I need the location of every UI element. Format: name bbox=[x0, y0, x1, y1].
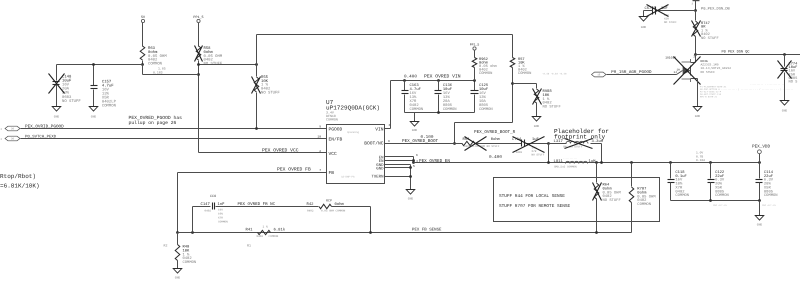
wire C147 branch up bbox=[192, 207, 194, 233]
svg-text:P0_SVTCH_PEXD: P0_SVTCH_PEXD bbox=[25, 134, 57, 139]
svg-text:10-13,SOT23_GD212: 10-13,SOT23_GD212 bbox=[701, 67, 732, 70]
capacitor C163 bbox=[404, 81, 406, 91]
node: R962 joins VIN rail bbox=[473, 79, 476, 82]
svg-text:0ohm: 0ohm bbox=[335, 202, 345, 207]
diode D63A (no stuff) bbox=[695, 55, 697, 63]
svg-text:0402: 0402 bbox=[307, 209, 314, 212]
svg-text:COMMON: COMMON bbox=[715, 193, 729, 198]
svg-text:PP1_5: PP1_5 bbox=[193, 15, 203, 20]
wire BOOT from U7 bbox=[385, 143, 463, 145]
svg-text:0.183: 0.183 bbox=[153, 71, 163, 75]
svg-text:GND: GND bbox=[408, 198, 414, 201]
node: C136 top bbox=[437, 79, 440, 82]
svg-text:PGOOD: PGOOD bbox=[329, 126, 343, 132]
svg-text:COMMON: COMMON bbox=[518, 71, 531, 76]
svg-text:0.400: 0.400 bbox=[489, 155, 502, 160]
resistor R707 bbox=[631, 163, 633, 187]
svg-text:D63A: D63A bbox=[701, 60, 708, 63]
svg-text:GND: GND bbox=[91, 116, 97, 119]
svg-text:9: 9 bbox=[319, 125, 321, 128]
ground for C774 bbox=[780, 101, 789, 106]
power flag 5V bbox=[141, 19, 144, 22]
svg-text:R2: R2 bbox=[164, 243, 168, 247]
svg-text:26: 26 bbox=[11, 128, 15, 131]
svg-text:GND: GND bbox=[412, 129, 418, 132]
node: EN wire start bbox=[412, 161, 415, 164]
svg-text:COMMON: COMMON bbox=[764, 193, 778, 198]
svg-text:R41: R41 bbox=[246, 228, 254, 233]
node: L317 branch rejoin bbox=[600, 161, 603, 164]
wire R58 line to R55 vertical bbox=[199, 64, 257, 66]
node: FB wire bottom bbox=[176, 231, 179, 234]
svg-text:Rtop/Rbot): Rtop/Rbot) bbox=[0, 173, 36, 180]
resistor R63 bbox=[140, 46, 145, 60]
svg-text:RCP: RCP bbox=[326, 198, 332, 202]
svg-text:VIN: VIN bbox=[375, 126, 384, 132]
svg-text:PEX_OVRED_BOOT_R: PEX_OVRED_BOOT_R bbox=[474, 130, 516, 135]
svg-text:REV-B NOTE-21: REV-B NOTE-21 bbox=[700, 96, 718, 99]
svg-text:1 %: 1 % bbox=[263, 225, 268, 228]
svg-text:1A: 1A bbox=[677, 69, 681, 72]
wire TXERN pin stub bbox=[385, 176, 411, 178]
node: output rail to ground corner bbox=[758, 199, 761, 202]
svg-text:COMMON: COMMON bbox=[637, 202, 651, 207]
svg-text:1.0V: 1.0V bbox=[696, 152, 703, 155]
wire vertical joining branches bbox=[548, 144, 550, 163]
svg-text:COMMON: COMMON bbox=[479, 107, 493, 112]
svg-text:GND: GND bbox=[175, 277, 181, 280]
svg-text:OpenWing: OpenWing bbox=[347, 131, 360, 134]
resistor R57 bbox=[512, 35, 514, 58]
svg-text:CS-DNP-PG: CS-DNP-PG bbox=[341, 176, 355, 179]
wire R57 bottom to BOOT node bbox=[455, 122, 513, 124]
node: BOOT wire junction at 454 bbox=[453, 142, 456, 145]
node: R58 line at y64 bbox=[197, 63, 200, 66]
svg-text:0.05 OHM COMMON: 0.05 OHM COMMON bbox=[321, 209, 346, 212]
op-amp U7 uP1729Q0DA body bbox=[327, 125, 385, 184]
svg-text:COMMON: COMMON bbox=[479, 71, 492, 76]
svg-text:0ohm: 0ohm bbox=[491, 137, 501, 142]
node: R64 bottom on sense wire bbox=[595, 231, 598, 234]
svg-text:COMMON: COMMON bbox=[102, 104, 117, 109]
wire step from R63 rail down bbox=[142, 65, 144, 75]
svg-text:GND: GND bbox=[695, 115, 701, 118]
wire rail top-left bbox=[57, 64, 143, 66]
svg-text:P0_PEX_DSN_DB: P0_PEX_DSN_DB bbox=[701, 7, 731, 12]
wire FB vertical bbox=[177, 173, 179, 233]
svg-text:PEX_OVRED_PGOOD has: PEX_OVRED_PGOOD has bbox=[129, 115, 183, 121]
wire U7 ground bus bbox=[410, 165, 412, 190]
svg-text:COMMON: COMMON bbox=[443, 107, 457, 112]
node: C157 on rail bbox=[92, 63, 95, 66]
node: boot wire to L317 branch bbox=[547, 142, 550, 145]
node: R63 to rail junction bbox=[141, 63, 144, 66]
node: C122 top bbox=[709, 161, 712, 164]
ground for C157 bbox=[89, 107, 98, 112]
svg-text:PEX OVRED FB: PEX OVRED FB bbox=[277, 167, 311, 173]
node: R988 branch bbox=[511, 82, 514, 85]
svg-text:PEX OVRED FB NC: PEX OVRED FB NC bbox=[238, 202, 276, 207]
svg-text:6.81k: 6.81k bbox=[274, 228, 286, 233]
svg-text:1nF: 1nF bbox=[218, 202, 226, 207]
svg-text:L317: L317 bbox=[554, 139, 564, 144]
svg-text:1uH: 1uH bbox=[589, 159, 597, 164]
power flag PP1V5 at R962 bbox=[473, 47, 476, 50]
resistor R40 to ground bbox=[177, 233, 179, 245]
capacitor C118 bbox=[670, 163, 672, 179]
node: R64 top bbox=[595, 161, 598, 164]
wire R58 down to VCC corner bbox=[198, 61, 200, 153]
wire SW pin 1 stub bbox=[385, 156, 414, 158]
svg-text:PP1_5: PP1_5 bbox=[470, 43, 480, 47]
svg-text:PEX FB SENSE: PEX FB SENSE bbox=[412, 228, 442, 233]
svg-text:0.400: 0.400 bbox=[404, 74, 417, 79]
node: C114 top / PEX_VDD bbox=[758, 161, 761, 164]
wire PEX_OVRID_PGOOD to U7 pin 9 bbox=[21, 128, 327, 130]
svg-text:P0_15R_AGR_PGOOD: P0_15R_AGR_PGOOD bbox=[611, 70, 652, 75]
svg-text:L811: L811 bbox=[554, 159, 564, 164]
ground for R40 bbox=[173, 269, 182, 274]
svg-text:PEX_VDD: PEX_VDD bbox=[752, 145, 770, 150]
svg-text:COMMON: COMMON bbox=[675, 193, 689, 198]
wire GND pin 1 stub bbox=[385, 164, 411, 166]
svg-text:181016: 181016 bbox=[665, 57, 676, 60]
stuff option box bbox=[494, 178, 660, 222]
svg-text:.......... . .......... ..: .......... . .......... .. bbox=[750, 83, 784, 86]
svg-text:COMMON: COMMON bbox=[218, 220, 228, 223]
svg-text:C147: C147 bbox=[201, 202, 211, 207]
svg-text:STUFF R44 FOR LOCAL SENSE: STUFF R44 FOR LOCAL SENSE bbox=[499, 194, 565, 199]
svg-text:-0.40 -0.40 -0.40: -0.40 -0.40 -0.40 bbox=[542, 72, 567, 75]
svg-text:16V: 16V bbox=[218, 208, 223, 211]
wire VIN pin stub bbox=[385, 128, 391, 130]
svg-text:DNP ALT-C5: DNP ALT-C5 bbox=[762, 204, 776, 207]
svg-text:0402: 0402 bbox=[257, 235, 264, 238]
node: C774 junction bbox=[783, 53, 786, 56]
capacitor C5741 (no stuff) bbox=[656, 10, 696, 12]
wire caps bottom rail bbox=[405, 112, 475, 114]
svg-text:NO STUFF: NO STUFF bbox=[62, 99, 81, 104]
wire output caps ground rail bbox=[671, 200, 760, 202]
capacitor C774 (no stuff) bbox=[784, 55, 786, 67]
svg-text:7: 7 bbox=[319, 169, 321, 172]
svg-text:P0 PEX DSN QC: P0 PEX DSN QC bbox=[722, 50, 750, 55]
node: R707 top bbox=[630, 161, 633, 164]
capacitor C157 bbox=[93, 65, 95, 86]
capacitor C148 (no stuff) bbox=[56, 65, 58, 81]
svg-text:0.7B: 0.7B bbox=[696, 155, 703, 158]
svg-text:X7R: X7R bbox=[532, 150, 537, 153]
resistor R55 (no stuff) bbox=[256, 35, 258, 77]
svg-text:26: 26 bbox=[11, 138, 15, 141]
capacitor C794 (no stuff) on boot wire bbox=[521, 140, 523, 147]
svg-text:10: 10 bbox=[317, 136, 321, 139]
resistor R58 (no stuff) bbox=[196, 46, 201, 60]
svg-text:R42: R42 bbox=[307, 202, 315, 207]
capacitor C136 bbox=[438, 81, 440, 91]
svg-text:GND: GND bbox=[54, 116, 60, 119]
wire L317 branch down bbox=[601, 144, 603, 163]
svg-text:0402: 0402 bbox=[205, 209, 212, 212]
svg-text:GND: GND bbox=[757, 224, 763, 227]
svg-text:PEX_OVRID_PGOOD: PEX_OVRID_PGOOD bbox=[25, 124, 64, 129]
node: R55 vertical at y64 bbox=[255, 63, 258, 66]
svg-text:PEX_OVRED_BOOT: PEX_OVRED_BOOT bbox=[402, 139, 439, 144]
svg-text:SMD_5x5 COMMON: SMD_5x5 COMMON bbox=[554, 166, 577, 169]
net flag P0_SVTCH_PEXD bbox=[5, 136, 20, 141]
resistor R988 (no stuff) bbox=[536, 84, 538, 89]
svg-text:NO STUFF: NO STUFF bbox=[701, 71, 716, 74]
capacitor C125 bbox=[474, 81, 476, 91]
svg-text:TXERN: TXERN bbox=[371, 175, 384, 180]
svg-text:3.3uH: 3.3uH bbox=[592, 139, 604, 144]
svg-text:R1: R1 bbox=[247, 243, 251, 247]
svg-text:COMMON: COMMON bbox=[410, 107, 424, 112]
svg-text:=6.81K/10K): =6.81K/10K) bbox=[0, 183, 40, 190]
wire P0_15R_AGR_PGOOD bbox=[607, 74, 677, 76]
node: step wire joins R58 line bbox=[197, 73, 200, 76]
node: DSN_DB junction bbox=[694, 9, 697, 12]
svg-text:NO STUFF: NO STUFF bbox=[701, 36, 719, 41]
svg-text:VCC: VCC bbox=[329, 151, 338, 157]
ground for R988 bbox=[532, 117, 541, 122]
svg-text:uP1729Q0DA(GCK): uP1729Q0DA(GCK) bbox=[326, 104, 380, 111]
inductor L811 bbox=[566, 161, 588, 163]
svg-text:BOOT/NC: BOOT/NC bbox=[364, 141, 384, 147]
svg-text:NO STUFF: NO STUFF bbox=[603, 198, 622, 203]
svg-text:NO STUFF: NO STUFF bbox=[532, 154, 545, 157]
ground for U7 bbox=[406, 190, 415, 195]
svg-text:X7R: X7R bbox=[218, 216, 223, 219]
ground for output caps bbox=[759, 201, 761, 216]
svg-text:GND: GND bbox=[782, 110, 788, 113]
svg-text:0.10A: 0.10A bbox=[696, 159, 705, 162]
node: C147 branch left bbox=[191, 231, 194, 234]
wire GND pin 2 stub bbox=[385, 167, 411, 169]
resistor R42 on RC branch bbox=[319, 204, 332, 208]
node: R55 on PGOOD wire bbox=[255, 127, 258, 130]
node: RC branch rejoins bbox=[369, 231, 372, 234]
svg-text:GND: GND bbox=[641, 26, 647, 29]
svg-text:PEX OVRED VCC: PEX OVRED VCC bbox=[262, 148, 299, 154]
wire PEX_OVRED_EN output bbox=[414, 162, 760, 164]
svg-text:PEX OVRED VIN: PEX OVRED VIN bbox=[424, 73, 461, 79]
wire PEX_FB_SENSE bottom bbox=[178, 232, 632, 234]
capacitor C114 bbox=[759, 163, 761, 179]
wire SW bus vertical bbox=[413, 157, 415, 163]
power stub top right bbox=[695, 1, 697, 11]
wire to R988 bbox=[513, 83, 537, 85]
svg-text:GND: GND bbox=[534, 125, 540, 128]
svg-text:GND: GND bbox=[376, 166, 384, 171]
svg-text:NO STUFF: NO STUFF bbox=[664, 21, 677, 24]
svg-text:EN/FB: EN/FB bbox=[329, 136, 343, 142]
ground for C5741 bbox=[643, 11, 645, 17]
svg-text:CCO: CCO bbox=[210, 194, 216, 199]
svg-text:COMMON: COMMON bbox=[326, 117, 338, 121]
power flag PP1V5 top bbox=[197, 19, 200, 22]
node: L811 wire junction bbox=[547, 161, 550, 164]
resistor R747 (no stuff) bbox=[695, 11, 697, 21]
svg-text:C794: C794 bbox=[512, 137, 522, 142]
svg-text:COMMON: COMMON bbox=[269, 235, 279, 238]
svg-text:5: 5 bbox=[413, 165, 415, 168]
ground for C148 bbox=[52, 107, 61, 112]
svg-text:8: 8 bbox=[388, 140, 390, 143]
wire P0_SVTCH_PEXD to U7 pin 10 bbox=[21, 138, 327, 140]
svg-text:NO S: NO S bbox=[789, 80, 799, 85]
wire rail PEX_OVRED_VIN bbox=[391, 80, 475, 82]
svg-text:15: 15 bbox=[597, 74, 601, 77]
wire top horizontal R55-R57 bbox=[257, 34, 513, 36]
svg-text:COMMON: COMMON bbox=[183, 260, 197, 265]
node: C122 bottom bbox=[709, 199, 712, 202]
wire RC branch right down bbox=[370, 207, 372, 233]
svg-text:STUFF R707 FOR REMOTE SENSE: STUFF R707 FOR REMOTE SENSE bbox=[499, 204, 571, 209]
svg-text:...........: ........... bbox=[563, 157, 577, 160]
svg-text:DNP ALT-C5: DNP ALT-C5 bbox=[713, 204, 727, 207]
resistor R64 (no stuff) bbox=[596, 163, 598, 183]
ground for input caps bbox=[414, 113, 416, 122]
node: DSN_QC junction bbox=[694, 53, 697, 56]
svg-text:0402: 0402 bbox=[516, 151, 523, 154]
wire SW pin 2 stub bbox=[385, 160, 414, 162]
svg-text:AZ23C5.1M0: AZ23C5.1M0 bbox=[701, 64, 719, 67]
resistor R41 bbox=[258, 230, 271, 234]
net flag P0_15R_AGR_PGOOD bbox=[592, 72, 607, 77]
wire diode to ground bbox=[697, 81, 699, 107]
resistor R54 (no stuff) on boot wire bbox=[462, 141, 475, 145]
node: C136 bottom bbox=[437, 111, 440, 114]
svg-text:NO STUFF: NO STUFF bbox=[543, 105, 562, 110]
svg-text:FB: FB bbox=[329, 170, 335, 176]
wire PEX_OVRED_VCC bbox=[199, 152, 327, 154]
svg-text:pullup on page 26: pullup on page 26 bbox=[129, 120, 177, 126]
wire PEX_OVRED_FB bbox=[178, 172, 327, 174]
resistor R962 bbox=[472, 58, 477, 68]
svg-text:10%: 10% bbox=[218, 212, 223, 215]
wire P0_PEX_DSN_QC bbox=[696, 54, 800, 56]
capacitor C147 bbox=[193, 206, 211, 208]
net flag PEX_OVRID_PGOOD bbox=[5, 126, 20, 131]
svg-text:6: 6 bbox=[416, 154, 418, 157]
node: C118 top bbox=[669, 161, 672, 164]
capacitor C122 bbox=[710, 163, 712, 179]
svg-text:PEX OVRED EN: PEX OVRED EN bbox=[419, 159, 450, 164]
ground for D63A bbox=[693, 107, 702, 112]
inductor L317 (no stuff) bbox=[549, 143, 567, 145]
node: C163 top bbox=[403, 79, 406, 82]
svg-text:NO STUFF: NO STUFF bbox=[261, 91, 280, 96]
